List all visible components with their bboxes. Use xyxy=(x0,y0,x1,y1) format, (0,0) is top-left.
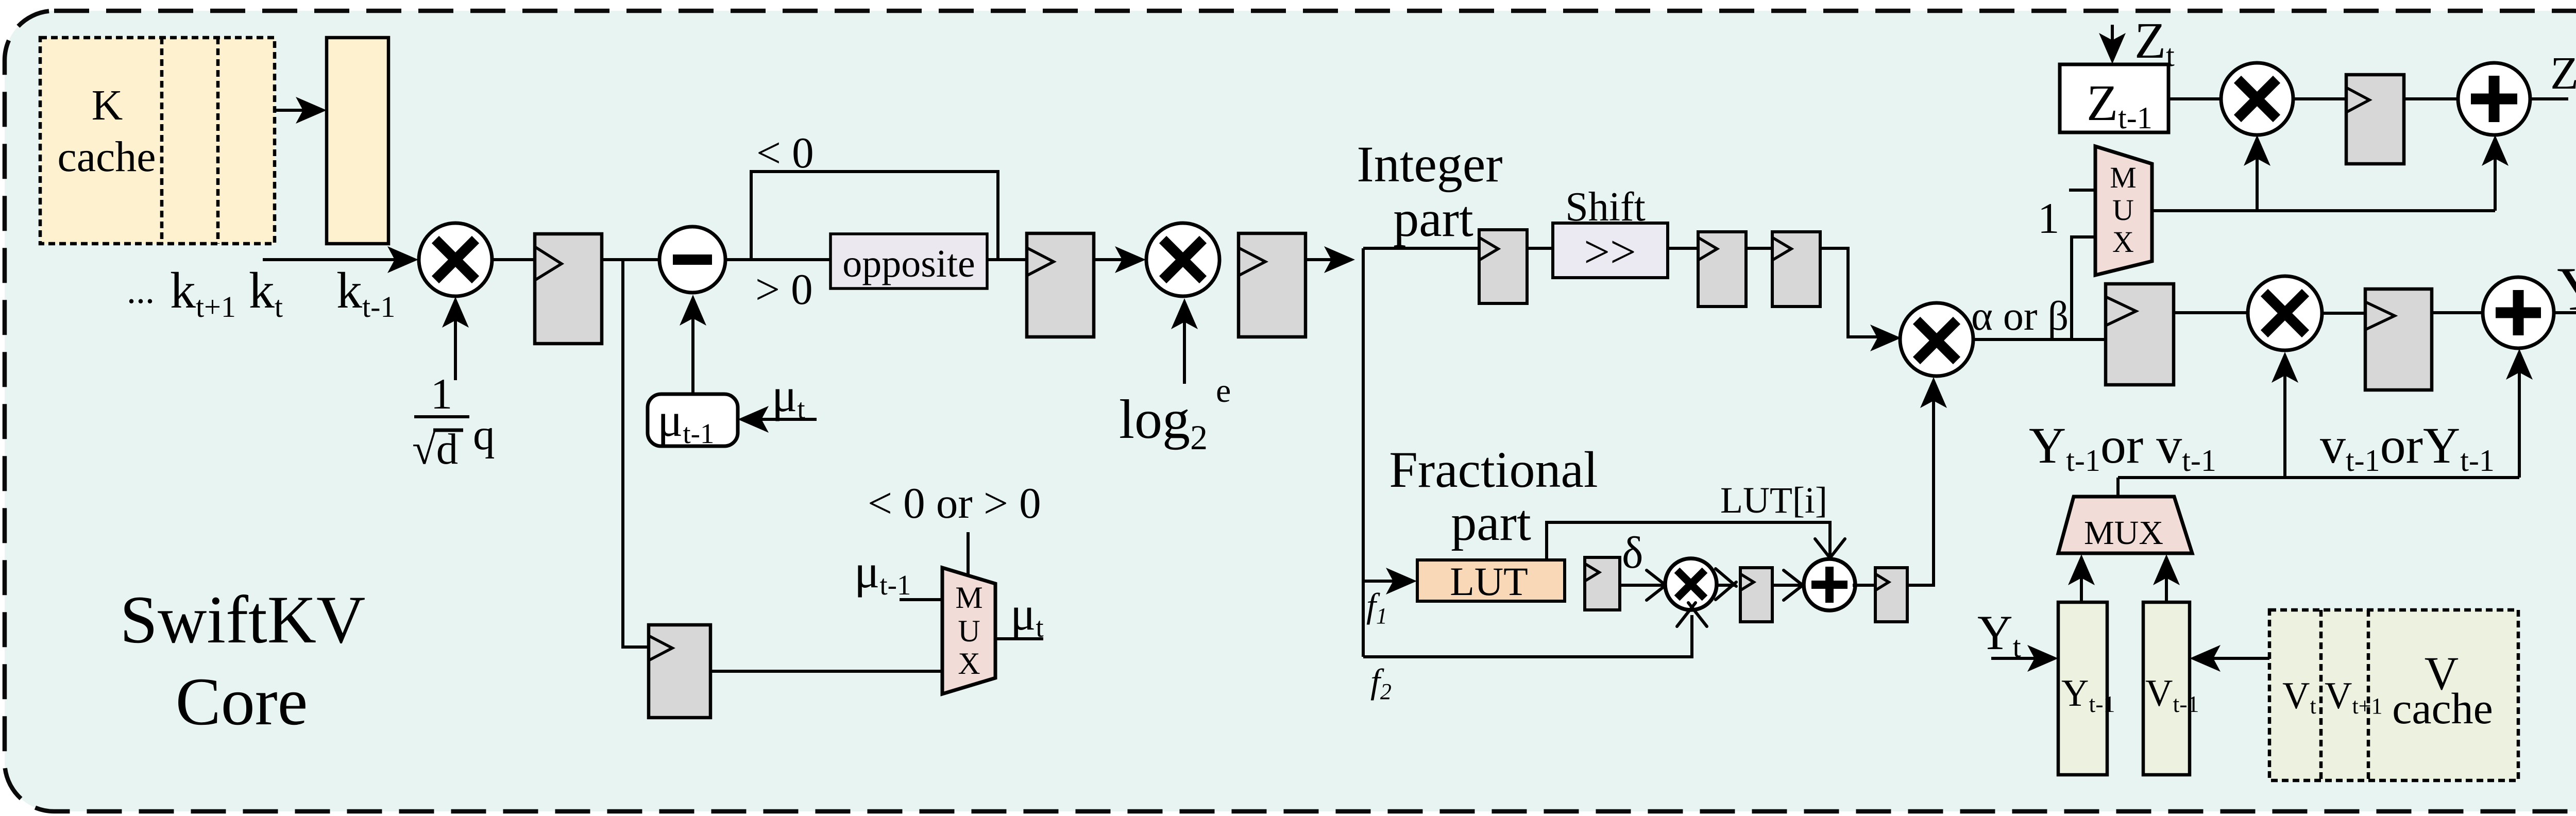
multiplier X3 (alpha/beta scale) xyxy=(1900,303,1973,376)
wire: X6 to register R13 xyxy=(2322,312,2365,315)
svg-text:>>: >> xyxy=(1584,227,1636,278)
wire: LUT[i] feed-forward to adder A1 xyxy=(1547,522,1845,563)
wire: Y t-1 box up into MUX M3 xyxy=(2068,554,2095,602)
svg-text:> 0: > 0 xyxy=(755,265,813,314)
wire: k stream into multiplier xyxy=(263,246,418,273)
svg-text:M: M xyxy=(2110,161,2137,194)
svg-text:X: X xyxy=(958,647,980,681)
wire: R4 to MUX M1 lower input xyxy=(710,670,942,673)
wire: R1 to subtractor, with tap down to R4 xyxy=(602,258,659,261)
multiplier X4 (fractional) xyxy=(1665,558,1717,610)
register R7 xyxy=(1772,232,1820,307)
wire: V cache arrow into V t-1 column xyxy=(2190,645,2272,672)
K cache block xyxy=(40,38,275,244)
wire: branch up into A3 xyxy=(2506,349,2533,478)
svg-text:1: 1 xyxy=(2038,194,2060,243)
register R5 (integer path) xyxy=(1479,230,1527,303)
shifter box >> xyxy=(1553,223,1668,278)
wire: K cache to current-k register xyxy=(275,97,327,124)
register R12 (Z path) xyxy=(2346,75,2404,164)
wire: opposite to register R2 xyxy=(987,258,1027,261)
wire: f1 arrow into LUT xyxy=(1363,568,1417,594)
wire: tap up to MUX M2 lower input xyxy=(2072,237,2095,339)
wire: log2 e arrow up into X2 xyxy=(1171,298,1198,384)
register R1 xyxy=(535,234,602,344)
wire: R12 to adder A2 xyxy=(2404,97,2458,100)
svg-text:Y: Y xyxy=(2557,254,2576,323)
wire: Z t output xyxy=(2530,97,2568,100)
wire: V t-1 box up into MUX M3 xyxy=(2153,554,2180,602)
wire: R13 to adder A3 xyxy=(2432,311,2483,314)
wire: scale input arrow into X1 from below xyxy=(442,297,469,380)
wire: branch up into X6 xyxy=(2272,352,2298,478)
adder A2 (Z accumulate) xyxy=(2458,63,2530,135)
multiplier X5 (Z path) xyxy=(2221,63,2293,135)
wire: split node to integer register R5 xyxy=(1363,247,1479,250)
wire: A1 to register R10 xyxy=(1853,584,1875,587)
wire: Y t arrow into Y t-1 column xyxy=(1991,645,2058,672)
wire: R5 to shift box xyxy=(1527,247,1553,250)
adder A1 (fractional) xyxy=(1804,559,1855,610)
wire: constant 1 stub into MUX M2 xyxy=(2069,189,2095,192)
register R10 xyxy=(1875,568,1907,622)
svg-text:Integer: Integer xyxy=(1357,135,1502,193)
svg-text:X: X xyxy=(2112,225,2134,259)
wire: mux rail feeding X6 and A3 from below xyxy=(2118,476,2519,479)
wire: mu t arrow into mu t-1 box xyxy=(738,406,817,433)
opposite box xyxy=(831,234,987,288)
label 1/sqrt(d) q xyxy=(412,370,495,473)
wire: R11 to multiplier X6 xyxy=(2174,311,2247,314)
wire: shift to register R6 xyxy=(1668,247,1698,250)
register R8 (after LUT) xyxy=(1585,557,1620,610)
wire: MUX M1 output xyxy=(995,637,1043,640)
mu t-1 holding box xyxy=(648,394,738,449)
svg-text:< 0 or > 0: < 0 or > 0 xyxy=(868,479,1041,528)
MUX M1 (mu select) xyxy=(942,568,995,694)
V t-1 column box xyxy=(2143,602,2199,775)
register R6 xyxy=(1698,232,1746,307)
svg-text:part: part xyxy=(1451,494,1531,551)
wire: X1 to register R1 xyxy=(492,258,535,261)
svg-text:opposite: opposite xyxy=(842,242,975,285)
MUX M2 (Z path select) xyxy=(2095,146,2152,275)
wire: less-than-zero bypass loop xyxy=(751,172,998,260)
wire: X4 to register R9 xyxy=(1716,569,1736,600)
svg-text:Zt: Zt xyxy=(2550,48,2576,103)
register R9 xyxy=(1740,568,1772,622)
wire: R2 to multiplier X2 xyxy=(1094,246,1146,273)
wire: R9 to adder A1 xyxy=(1772,570,1807,600)
wire: mu t-1 stub into MUX M1 xyxy=(900,598,942,601)
register R4 (bottom-left delay) xyxy=(649,625,710,718)
multiplier X2 (x log2 e) xyxy=(1146,223,1219,296)
wire: X3 output (alpha or beta product) to register R11 xyxy=(1973,338,2106,341)
wire: branch up into multiplier X5 xyxy=(2244,135,2270,211)
svg-text:M: M xyxy=(955,581,982,615)
svg-text:MUX: MUX xyxy=(2084,514,2163,552)
svg-text:part: part xyxy=(1393,190,1473,247)
svg-text:LUT[i]: LUT[i] xyxy=(1720,480,1827,521)
svg-text:SwiftKV: SwiftKV xyxy=(120,582,366,657)
V cache block xyxy=(2269,610,2518,780)
multiplier X6 (Y path) xyxy=(2248,276,2322,350)
LUT box xyxy=(1417,559,1565,604)
current key column (k t-1 register) xyxy=(327,38,388,244)
svg-text:Fractional: Fractional xyxy=(1389,441,1598,498)
wire: mu t-1 arrow up into subtractor xyxy=(680,295,706,395)
node: integer/fraction split vertical xyxy=(1362,248,1365,657)
svg-text:δ: δ xyxy=(1622,528,1643,578)
svg-text:cache: cache xyxy=(2392,684,2493,733)
wire: f2 path into X4 from below xyxy=(1363,603,1707,657)
wire: Y t output xyxy=(2554,311,2576,314)
svg-text:cache: cache xyxy=(57,133,156,181)
svg-text:...: ... xyxy=(127,270,155,311)
wire: R3 to integer/fraction split node xyxy=(1306,246,1355,273)
adder A3 (Y accumulate) xyxy=(2483,277,2554,348)
svg-text:Core: Core xyxy=(176,664,308,739)
register R11 (Y path input) xyxy=(2106,284,2174,385)
multiplier X1 (k x q/sqrt(d)) xyxy=(419,223,492,296)
wire: branch up into adder A2 xyxy=(2482,135,2509,211)
wire: Z t-1 to multiplier X5 xyxy=(2168,97,2221,100)
wire: X5 to register R12 xyxy=(2293,97,2346,100)
svg-text:U: U xyxy=(958,614,980,648)
svg-text:α or β: α or β xyxy=(1971,294,2069,339)
wire: select line into MUX M1 xyxy=(967,532,970,577)
register R3 xyxy=(1239,233,1306,337)
svg-text:K: K xyxy=(92,81,123,129)
wire: R6 to R7 xyxy=(1746,247,1772,250)
register R13 (Y path) xyxy=(2365,289,2432,390)
wire: delta into multiplier X4 xyxy=(1620,570,1670,600)
svg-text:q: q xyxy=(473,411,495,459)
subtractor S1 xyxy=(659,227,725,293)
wire: tap down to bottom register R4 xyxy=(623,260,649,647)
wire: subtractor to opposite box xyxy=(725,258,831,261)
register R2 xyxy=(1027,233,1094,337)
MUX M3 (V/Y select) xyxy=(2058,497,2192,553)
wire: MUX M2 output rail feeding X5 and A2 xyxy=(2152,209,2495,212)
svg-text:1: 1 xyxy=(431,370,453,418)
svg-text:√d: √d xyxy=(412,425,458,473)
svg-text:LUT: LUT xyxy=(1450,559,1528,604)
svg-text:< 0: < 0 xyxy=(756,129,814,177)
Z t-1 box xyxy=(2060,64,2168,135)
wire: down into MUX M3 output side xyxy=(2116,478,2120,497)
wire: R7 down to multiplier X3 xyxy=(1820,248,1901,351)
Y t-1 column box xyxy=(2058,602,2115,775)
svg-text:U: U xyxy=(2112,193,2134,227)
wire: Z t write arrow into Z t-1 box xyxy=(2099,25,2126,64)
wire: fractional result up into X3 xyxy=(1907,377,1947,585)
